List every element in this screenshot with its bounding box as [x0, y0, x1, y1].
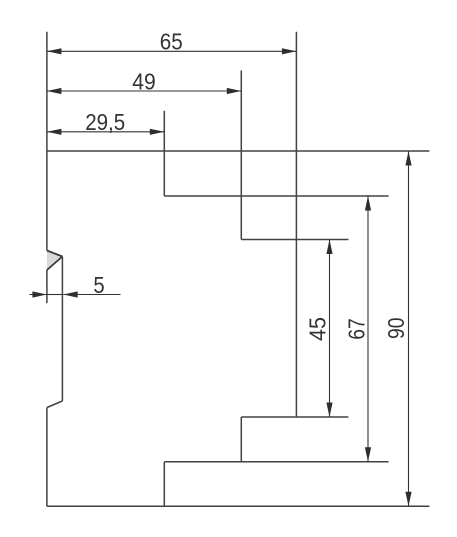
arrowhead 29,5 left [47, 129, 62, 135]
outline lower diagonal [47, 401, 63, 408]
dimension line 67 [367, 196, 369, 462]
svg-text:90: 90 [383, 318, 409, 340]
arrowhead 67 top [365, 196, 371, 211]
arrowhead 90 bottom [405, 492, 411, 507]
arrowhead 29,5 right [150, 129, 165, 135]
dimension line 29,5 [47, 131, 164, 133]
dimension line 49 [47, 90, 241, 92]
svg-text:65: 65 [160, 29, 183, 55]
outline third step horizontal + extension to 45-dim [241, 239, 348, 241]
arrowhead 49 left [47, 88, 62, 94]
outline clip recess vertical at x=62 [61, 257, 63, 402]
outline step vertical at x=164 [163, 151, 165, 196]
extension line x=164 above outline for 29,5-dim [163, 111, 165, 151]
outline step vertical at x=241 [240, 196, 242, 240]
outline bottom edge + extension to 90-dim [47, 505, 430, 507]
svg-text:49: 49 [132, 68, 156, 94]
outline left edge lower [46, 408, 48, 507]
arrowhead 5 left (outside, pointing right) [32, 291, 47, 297]
dimension 5 right leader line [63, 294, 120, 296]
clip wedge hypotenuse edge [47, 257, 63, 271]
arrowhead 5 right (outside, pointing left) [63, 291, 77, 297]
svg-text:29,5: 29,5 [85, 109, 125, 135]
clip wedge top diagonal edge [47, 251, 63, 257]
dimension line 45 [329, 240, 331, 418]
svg-text:5: 5 [93, 272, 104, 298]
extension line x=47 below clip wedge for 5-dim [46, 270, 48, 303]
outline left edge upper + extension above for dims [46, 32, 48, 251]
clip wedge filled triangle [47, 251, 63, 271]
arrowhead 45 top [326, 240, 332, 255]
arrowhead 67 bottom [365, 447, 371, 462]
outline second step horizontal + extension to 67-dim [164, 195, 388, 197]
dimension 5 middle segment [47, 294, 63, 296]
dimension 5 left tail line [30, 294, 47, 296]
outline right edge + upper extension line for 65-dim [295, 32, 297, 417]
dimension line 65 [47, 50, 297, 52]
svg-text:67: 67 [344, 318, 370, 340]
outline bottom step horizontal at y=462 + extension [164, 461, 388, 463]
arrowhead 65 left [47, 48, 62, 54]
dimension line 90 [408, 151, 410, 506]
outline bottom step horizontal at y=417 + extension [241, 416, 348, 418]
outline bottom step vertical at x=164 [163, 462, 165, 507]
arrowhead 45 bottom [326, 403, 332, 418]
arrowhead 65 right [282, 48, 297, 54]
arrowhead 49 right [227, 88, 242, 94]
outline top edge + extension line to 90-dim [47, 150, 430, 152]
outline bottom step vertical at x=241 [240, 417, 242, 462]
extension line x=241 above outline for 49-dim [240, 70, 242, 196]
svg-text:45: 45 [304, 317, 330, 341]
arrowhead 90 top [405, 151, 411, 166]
